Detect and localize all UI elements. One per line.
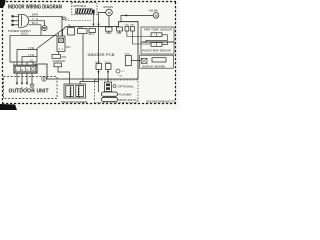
earth circle with Y/G label (116, 69, 120, 73)
earth symbol power supply (42, 26, 47, 31)
svg-text:OPTIONAL: OPTIONAL (118, 84, 135, 88)
CN13 wire down (98, 70, 100, 93)
wire left vertical (9, 35, 11, 62)
svg-text:DISPLAY BOARD: DISPLAY BOARD (142, 64, 165, 68)
svg-text:0010452096A0C70: 0010452096A0C70 (146, 99, 176, 103)
wire Y-G to earth (29, 21, 45, 26)
dashed link optional to PCB (66, 14, 94, 25)
plug pin pads (12, 16, 14, 17)
circle icon optional bottom (113, 85, 116, 88)
svg-text:MICRO SWITCH: MICRO SWITCH (119, 98, 138, 102)
CN14 wire down (107, 70, 109, 83)
room sensor element divider (156, 43, 158, 47)
arrowhead CN14 wire (107, 71, 109, 73)
svg-text:PIPE TEMP. SENSOR: PIPE TEMP. SENSOR (144, 27, 172, 31)
connector CN14 (106, 64, 112, 70)
CN1 tick above (70, 27, 72, 28)
connector CN20 (54, 63, 62, 67)
svg-text:CN14: CN14 (105, 62, 111, 64)
DISPLAY BOARD box (140, 55, 174, 68)
RM FAN left wire down into PCB to CN13 (99, 12, 106, 63)
terminal block (14, 65, 37, 73)
wire vertical to block N (21, 57, 23, 66)
transformer box (64, 84, 86, 98)
svg-text:Y-G: Y-G (32, 18, 38, 21)
terminal earth circle (31, 68, 34, 71)
wire BRN from plug to PCB fuse (29, 16, 63, 36)
svg-text:RY1: RY1 (66, 46, 71, 49)
black corner blob bottom-left (0, 104, 17, 110)
vertical connector in optional box (105, 82, 112, 92)
outer dashed border right (175, 2, 177, 103)
svg-text:M: M (155, 14, 158, 18)
svg-text:CN 3: CN 3 (89, 34, 95, 36)
wire block down 1 (16, 73, 18, 84)
wire BLK horizontal (10, 34, 57, 36)
plasma stadium (102, 92, 118, 96)
CN5 tick down (119, 31, 121, 33)
plug pin 3 (13, 24, 19, 26)
svg-text:Y/G: Y/G (119, 75, 123, 77)
plug pin 2 (13, 20, 19, 22)
connector CN13 (96, 64, 102, 70)
wire block down 2 (21, 73, 23, 84)
room sensor element (151, 43, 162, 47)
hatched component in optional box (76, 9, 95, 14)
connector CN7 (131, 27, 135, 32)
RM FAN bottom wire (108, 16, 110, 27)
fuse/relay box RY1 (57, 36, 65, 52)
svg-text:CN5: CN5 (117, 33, 122, 35)
end cap of hatched component (92, 10, 95, 14)
outer dashed border bottom (2, 103, 176, 105)
svg-text:TRANSFORMER: TRANSFORMER (61, 100, 88, 104)
RY1 feed wire (58, 33, 60, 36)
diagonal wire to PCB corner (37, 30, 63, 49)
pipe sensor element divider (156, 33, 158, 37)
wire block down 4 (31, 73, 33, 83)
CN23 tick down (108, 31, 110, 33)
OPTIONAL dashed box bottom (95, 80, 139, 103)
outer dashed border left (2, 2, 4, 103)
arrowhead CN13 wire (97, 71, 99, 73)
svg-text:BRN: BRN (32, 14, 38, 17)
svg-text:CN13: CN13 (95, 62, 101, 64)
pipe sensor element (151, 33, 162, 37)
ROOM TEMP SENSOR box (141, 42, 174, 54)
wire CN12 to display board (131, 60, 141, 62)
svg-text:CN23: CN23 (106, 33, 113, 35)
wire vertical to block S (26, 62, 28, 65)
connector CN23 (106, 27, 113, 31)
plug inner line (21, 15, 23, 26)
arrowhead SW wire on horizontal (125, 14, 127, 16)
connector CN6 (125, 27, 129, 32)
svg-text:ROOM TEMP. SENSOR: ROOM TEMP. SENSOR (142, 49, 171, 53)
INDOOR PCB box outline (35, 22, 138, 79)
svg-text:YLW: YLW (28, 54, 35, 57)
wire BLU down to black wire (29, 25, 42, 36)
transformer wires (58, 67, 99, 84)
connector CN4 (52, 55, 61, 59)
micro switch stadium (102, 97, 118, 101)
pipe sensor loop (146, 35, 168, 43)
wire horizontal y56.5 (22, 56, 37, 58)
SW MG wire (121, 15, 153, 21)
circled earth on pcb bottom wire (42, 76, 47, 81)
optional dashed box top (72, 3, 97, 15)
display connector square with X (141, 58, 147, 63)
wire junction vertical x37 (36, 49, 38, 63)
connector CN5 (117, 27, 123, 31)
connector CN12 vertical (125, 55, 131, 65)
svg-text:S: S (27, 68, 29, 72)
OUTDOOR UNIT dashed box (4, 77, 58, 99)
power plug body (19, 14, 29, 27)
svg-text:M: M (108, 11, 111, 15)
small circle connector left of optional link (63, 17, 66, 20)
CN4 feed from RY1 (58, 52, 60, 55)
svg-text:BLU: BLU (32, 22, 38, 25)
black corner blob top-left (0, 0, 6, 8)
svg-text:INDOOR PCB: INDOOR PCB (88, 52, 115, 57)
svg-text:PLASMA: PLASMA (119, 93, 132, 97)
wire CN7 to room sensor (132, 31, 151, 44)
arrowhead RM left wire (97, 24, 99, 26)
arrowheads into outdoor unit (16, 83, 28, 85)
svg-text:CN12: CN12 (125, 54, 131, 56)
wire vertical to block 4 (32, 62, 34, 65)
display bar (152, 58, 166, 62)
wire horizontal y62 (10, 61, 37, 63)
wire CN6 to pipe sensor (127, 31, 151, 37)
svg-text:SW MG: SW MG (149, 8, 158, 12)
connector CN8 (78, 29, 88, 34)
arrowhead optional wire (92, 24, 94, 26)
wire vertical to block L (16, 50, 18, 66)
svg-text:INDOOR WIRING DIAGRAM: INDOOR WIRING DIAGRAM (8, 4, 62, 10)
wire horizontal y49.5 (17, 49, 37, 51)
SW MG motor (153, 13, 159, 19)
room sensor loop (162, 41, 168, 44)
wire block down 3 (26, 73, 28, 84)
PIPE TEMP SENSOR box (141, 27, 174, 42)
CN8 wire down long to transformer (82, 34, 84, 82)
svg-text:OPTIONAL: OPTIONAL (73, 4, 87, 8)
connector CN3 (89, 29, 96, 33)
svg-text:OUTDOOR UNIT: OUTDOOR UNIT (9, 89, 49, 95)
outer dashed border top (2, 1, 176, 3)
plug pin 1 (13, 15, 19, 17)
connector tall box CN1 (68, 28, 75, 36)
svg-text:YLW: YLW (28, 47, 35, 50)
small circled earth under 4th wire (30, 84, 34, 88)
svg-text:CN8: CN8 (78, 27, 83, 29)
transformer coils (70, 87, 80, 97)
svg-text:N: N (21, 68, 23, 72)
wire vertical x93.5 into PCB (93, 14, 95, 25)
svg-text:RM FAN: RM FAN (104, 5, 114, 9)
svg-text:CN4: CN4 (62, 57, 67, 59)
RM FAN motor (106, 9, 113, 16)
svg-text:BLCK: BLCK (21, 33, 28, 36)
connector dark cells (106, 84, 110, 87)
